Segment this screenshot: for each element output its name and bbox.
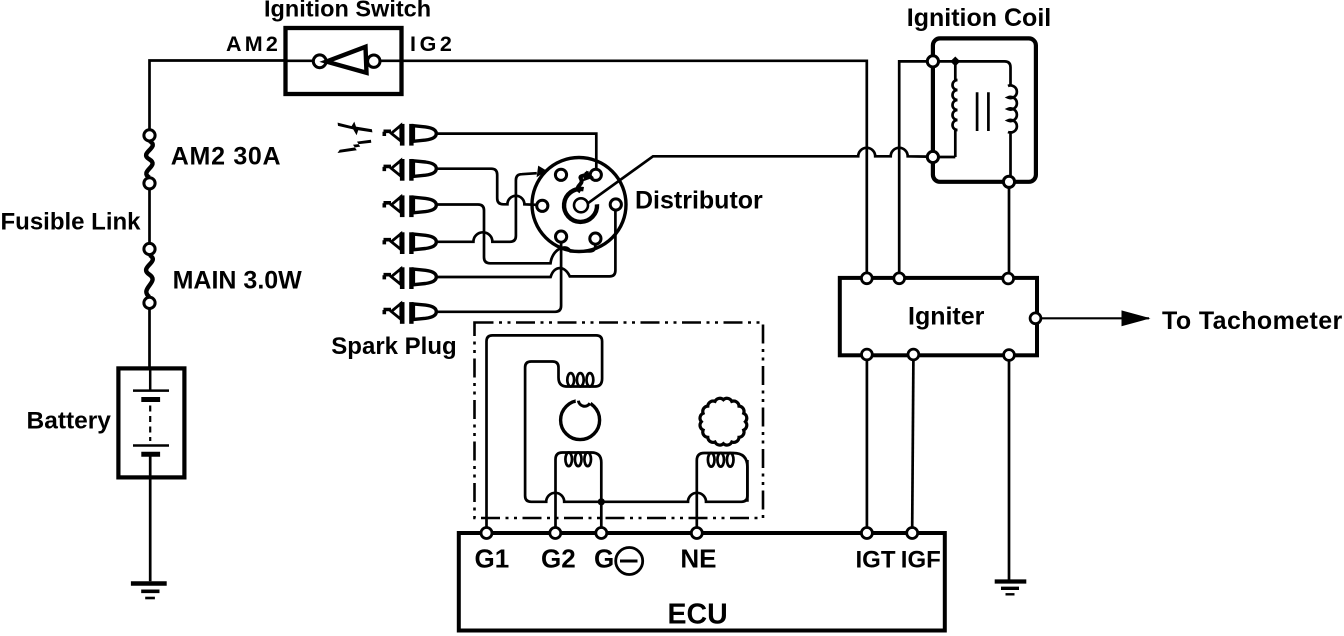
wire plug5 to distributor right post xyxy=(437,210,615,277)
igniter terminal top 3 xyxy=(1003,273,1014,284)
wire through ignition switch xyxy=(286,59,403,62)
igniter terminal right (tach) xyxy=(1030,313,1041,324)
svg-text:AM2: AM2 xyxy=(226,32,281,56)
svg-text:G2: G2 xyxy=(541,544,576,574)
distributor center electrode circle xyxy=(574,198,588,212)
wire fusible link to battery xyxy=(148,309,151,369)
svg-text:ECU: ECU xyxy=(668,598,728,630)
ground (igniter) xyxy=(995,582,1027,595)
wire coil secondary terminal to igniter xyxy=(1008,187,1011,273)
G signal rotor (notched circle) xyxy=(561,394,600,440)
igniter terminal bottom IGF xyxy=(908,349,919,360)
G2 pickup coil loops xyxy=(565,453,572,467)
wire IG2 bus to igniter xyxy=(402,61,867,273)
coil core xyxy=(977,92,988,131)
svg-text:To Tachometer: To Tachometer xyxy=(1162,307,1343,335)
distributor post right xyxy=(610,199,621,210)
distributor post bottom-right xyxy=(590,233,601,244)
ECU terminal G xyxy=(596,528,607,539)
distributor post top-left xyxy=(555,169,566,180)
wire igniter IGT to ECU xyxy=(866,360,869,527)
spark plug 2 xyxy=(384,159,437,181)
svg-text:Spark Plug: Spark Plug xyxy=(331,333,456,360)
junction dot coil xyxy=(950,56,960,66)
svg-text:Ignition Switch: Ignition Switch xyxy=(264,0,431,22)
svg-text:Ignition Coil: Ignition Coil xyxy=(907,4,1051,32)
ECU terminal IGF xyxy=(907,528,918,539)
svg-text:G1: G1 xyxy=(475,544,510,574)
wire ignition coil + terminal to igniter xyxy=(899,61,927,272)
wire igniter IGF to ECU xyxy=(912,360,913,527)
wire igniter to ground xyxy=(1008,361,1011,582)
ignition switch contact left xyxy=(313,55,326,68)
spark plug lightning bolt xyxy=(338,122,373,153)
svg-text:AM2 30A: AM2 30A xyxy=(171,142,281,170)
wire between fusible links xyxy=(148,189,151,244)
distributor post bottom-left xyxy=(556,231,567,242)
ground (battery) xyxy=(131,584,167,599)
svg-text:G: G xyxy=(594,544,614,574)
NE signal rotor (toothed wheel) xyxy=(700,398,747,445)
G2 pickup coil xyxy=(556,453,602,528)
coil secondary winding xyxy=(1008,85,1017,176)
fusible link AM2 30A xyxy=(144,130,155,189)
distributor rotor arc xyxy=(564,189,597,222)
spark plug 1 xyxy=(384,124,437,146)
wire battery feed: left column to ignition switch xyxy=(150,61,286,130)
ignition coil terminal - (bottom-left) xyxy=(927,151,938,162)
svg-text:IGT: IGT xyxy=(856,547,896,574)
svg-text:MAIN 3.0W: MAIN 3.0W xyxy=(173,267,303,295)
svg-text:Battery: Battery xyxy=(27,407,112,434)
spark plug 5 xyxy=(384,267,437,289)
svg-text:IG2: IG2 xyxy=(410,32,455,56)
ignition coil terminal + (top-left) xyxy=(927,56,938,67)
distributor post left xyxy=(537,200,548,211)
distributor rotor arm squiggle xyxy=(578,172,587,192)
spark plug 4 xyxy=(384,232,437,254)
ignition switch movable contact (triangle) xyxy=(326,47,366,73)
high tension lead distributor to coil xyxy=(588,148,928,204)
igniter terminal top 1 xyxy=(861,273,872,284)
wire plug4 to distributor top-left post (with arrow) xyxy=(437,173,537,242)
ECU terminal IGT xyxy=(861,528,872,539)
battery xyxy=(118,368,184,477)
svg-text:Igniter: Igniter xyxy=(908,303,985,331)
G1 pickup coil loops xyxy=(567,373,574,386)
igniter terminal top 2 xyxy=(894,273,905,284)
igniter box xyxy=(840,278,1037,355)
svg-text:NE: NE xyxy=(680,544,716,574)
wire plug2 to distributor left post xyxy=(437,169,536,205)
coil - terminal internal wire xyxy=(939,156,956,159)
ECU terminal G2 xyxy=(550,528,561,539)
spark plug 3 xyxy=(384,195,437,217)
igniter terminal bottom IGT xyxy=(862,349,873,360)
tachometer arrowhead xyxy=(1122,310,1151,326)
wire plug1 to distributor top-right post xyxy=(437,134,596,169)
svg-text:Fusible Link: Fusible Link xyxy=(1,208,142,235)
spark plug 6 xyxy=(384,302,437,324)
ignition coil secondary terminal (bottom) xyxy=(1003,176,1014,187)
distributor internals dash-dot boundary box xyxy=(475,323,764,519)
igniter terminal bottom ground xyxy=(1004,350,1015,361)
ignition coil box xyxy=(933,38,1036,181)
distributor housing circle xyxy=(532,158,626,252)
ECU box xyxy=(459,533,945,631)
ignition switch contact right xyxy=(368,55,380,67)
ECU terminal G1 xyxy=(481,528,492,539)
wire plug6 to distributor bottom-left post xyxy=(437,242,561,311)
coil primary winding xyxy=(953,61,958,157)
wire plug3 to distributor bottom-right post xyxy=(437,205,595,264)
ignition switch box xyxy=(286,28,402,94)
wire battery to ground xyxy=(149,477,152,581)
junction dot (G2 coil to common) xyxy=(598,498,605,505)
NE pickup coil loops xyxy=(708,453,715,467)
wire igniter to tachometer xyxy=(1041,317,1149,319)
arrow to top-left post xyxy=(537,166,547,178)
ECU terminal NE xyxy=(691,528,702,539)
fusible link MAIN 3.0W xyxy=(144,243,155,308)
svg-text:IGF: IGF xyxy=(901,547,941,574)
G1 pickup coil circuit xyxy=(487,335,748,527)
G minus symbol xyxy=(616,548,643,575)
coil internal top wire xyxy=(939,61,1011,85)
NE pickup coil xyxy=(697,453,748,527)
svg-text:Distributor: Distributor xyxy=(635,187,763,215)
distributor post top-right xyxy=(590,169,601,180)
